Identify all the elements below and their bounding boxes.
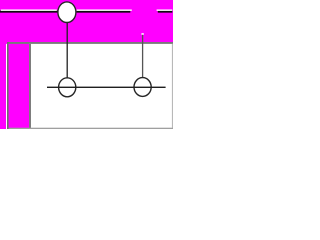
canvas white area bbox=[29, 42, 173, 129]
wire top-right highlight bbox=[157, 9, 173, 10]
panel top border line bbox=[7, 42, 173, 44]
wire top-middle bbox=[77, 11, 131, 13]
node white tip above right stub bbox=[141, 33, 143, 35]
canvas left border bbox=[29, 44, 31, 128]
wire horizontal through lamps bbox=[47, 87, 166, 88]
wire top-left highlight bbox=[1, 9, 57, 10]
lamp L1 (lower left circle) bbox=[59, 78, 76, 97]
panel left border shadow bbox=[7, 42, 9, 129]
terminal circle T1 (top) bbox=[58, 2, 76, 23]
lamp L2 (lower right circle) bbox=[134, 78, 151, 97]
wire vertical right (down to lamp L2) bbox=[142, 35, 143, 78]
wire top-left bbox=[0, 11, 58, 13]
panel bottom border line bbox=[7, 128, 173, 129]
canvas right border bbox=[172, 44, 173, 128]
wire top-middle highlight bbox=[77, 9, 132, 10]
wire vertical left (from top terminal down to lamp L1) bbox=[67, 22, 68, 79]
panel left border highlight bbox=[6, 44, 7, 129]
wire top-right bbox=[158, 11, 173, 13]
